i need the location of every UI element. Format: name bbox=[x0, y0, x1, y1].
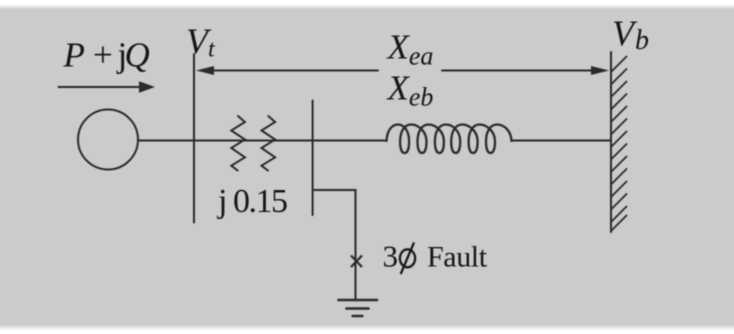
arrowhead left (at Vt bus) bbox=[196, 66, 214, 75]
arrowhead P+jQ bbox=[139, 81, 155, 93]
bus Vt bbox=[193, 54, 195, 223]
inductor L coil bbox=[387, 125, 512, 154]
reactance zigzag X2 bbox=[262, 116, 276, 171]
wire inductor to infinite bus bbox=[512, 140, 612, 142]
arrow shaft P+jQ bbox=[59, 86, 142, 88]
wire generator to inductor bbox=[138, 140, 387, 142]
arrowhead right (at Vb wall) bbox=[591, 66, 609, 75]
wall hatch marks bbox=[611, 57, 627, 232]
svg-text:P+jQ: P+jQ bbox=[63, 36, 150, 75]
ground bar 3 bbox=[353, 315, 363, 317]
svg-text:j 0.15: j 0.15 bbox=[217, 183, 287, 220]
svg-text:3: 3 bbox=[383, 239, 399, 274]
fault X mark bbox=[351, 256, 362, 268]
svg-text:Fault: Fault bbox=[427, 241, 488, 274]
dim arrow left shaft (Xea) bbox=[212, 70, 378, 72]
dim arrow right shaft (Xeb) bbox=[442, 70, 592, 72]
ground bar 2 bbox=[347, 307, 369, 310]
fault branch wire horizontal bbox=[313, 190, 356, 299]
generator G circle bbox=[78, 110, 138, 170]
bus node B (middle bus) bbox=[312, 101, 314, 216]
phi symbol (drawn) bbox=[400, 242, 415, 274]
reactance zigzag X1 bbox=[231, 116, 245, 171]
infinite bus wall Vb bbox=[610, 52, 612, 232]
ground bar 1 bbox=[339, 299, 378, 302]
